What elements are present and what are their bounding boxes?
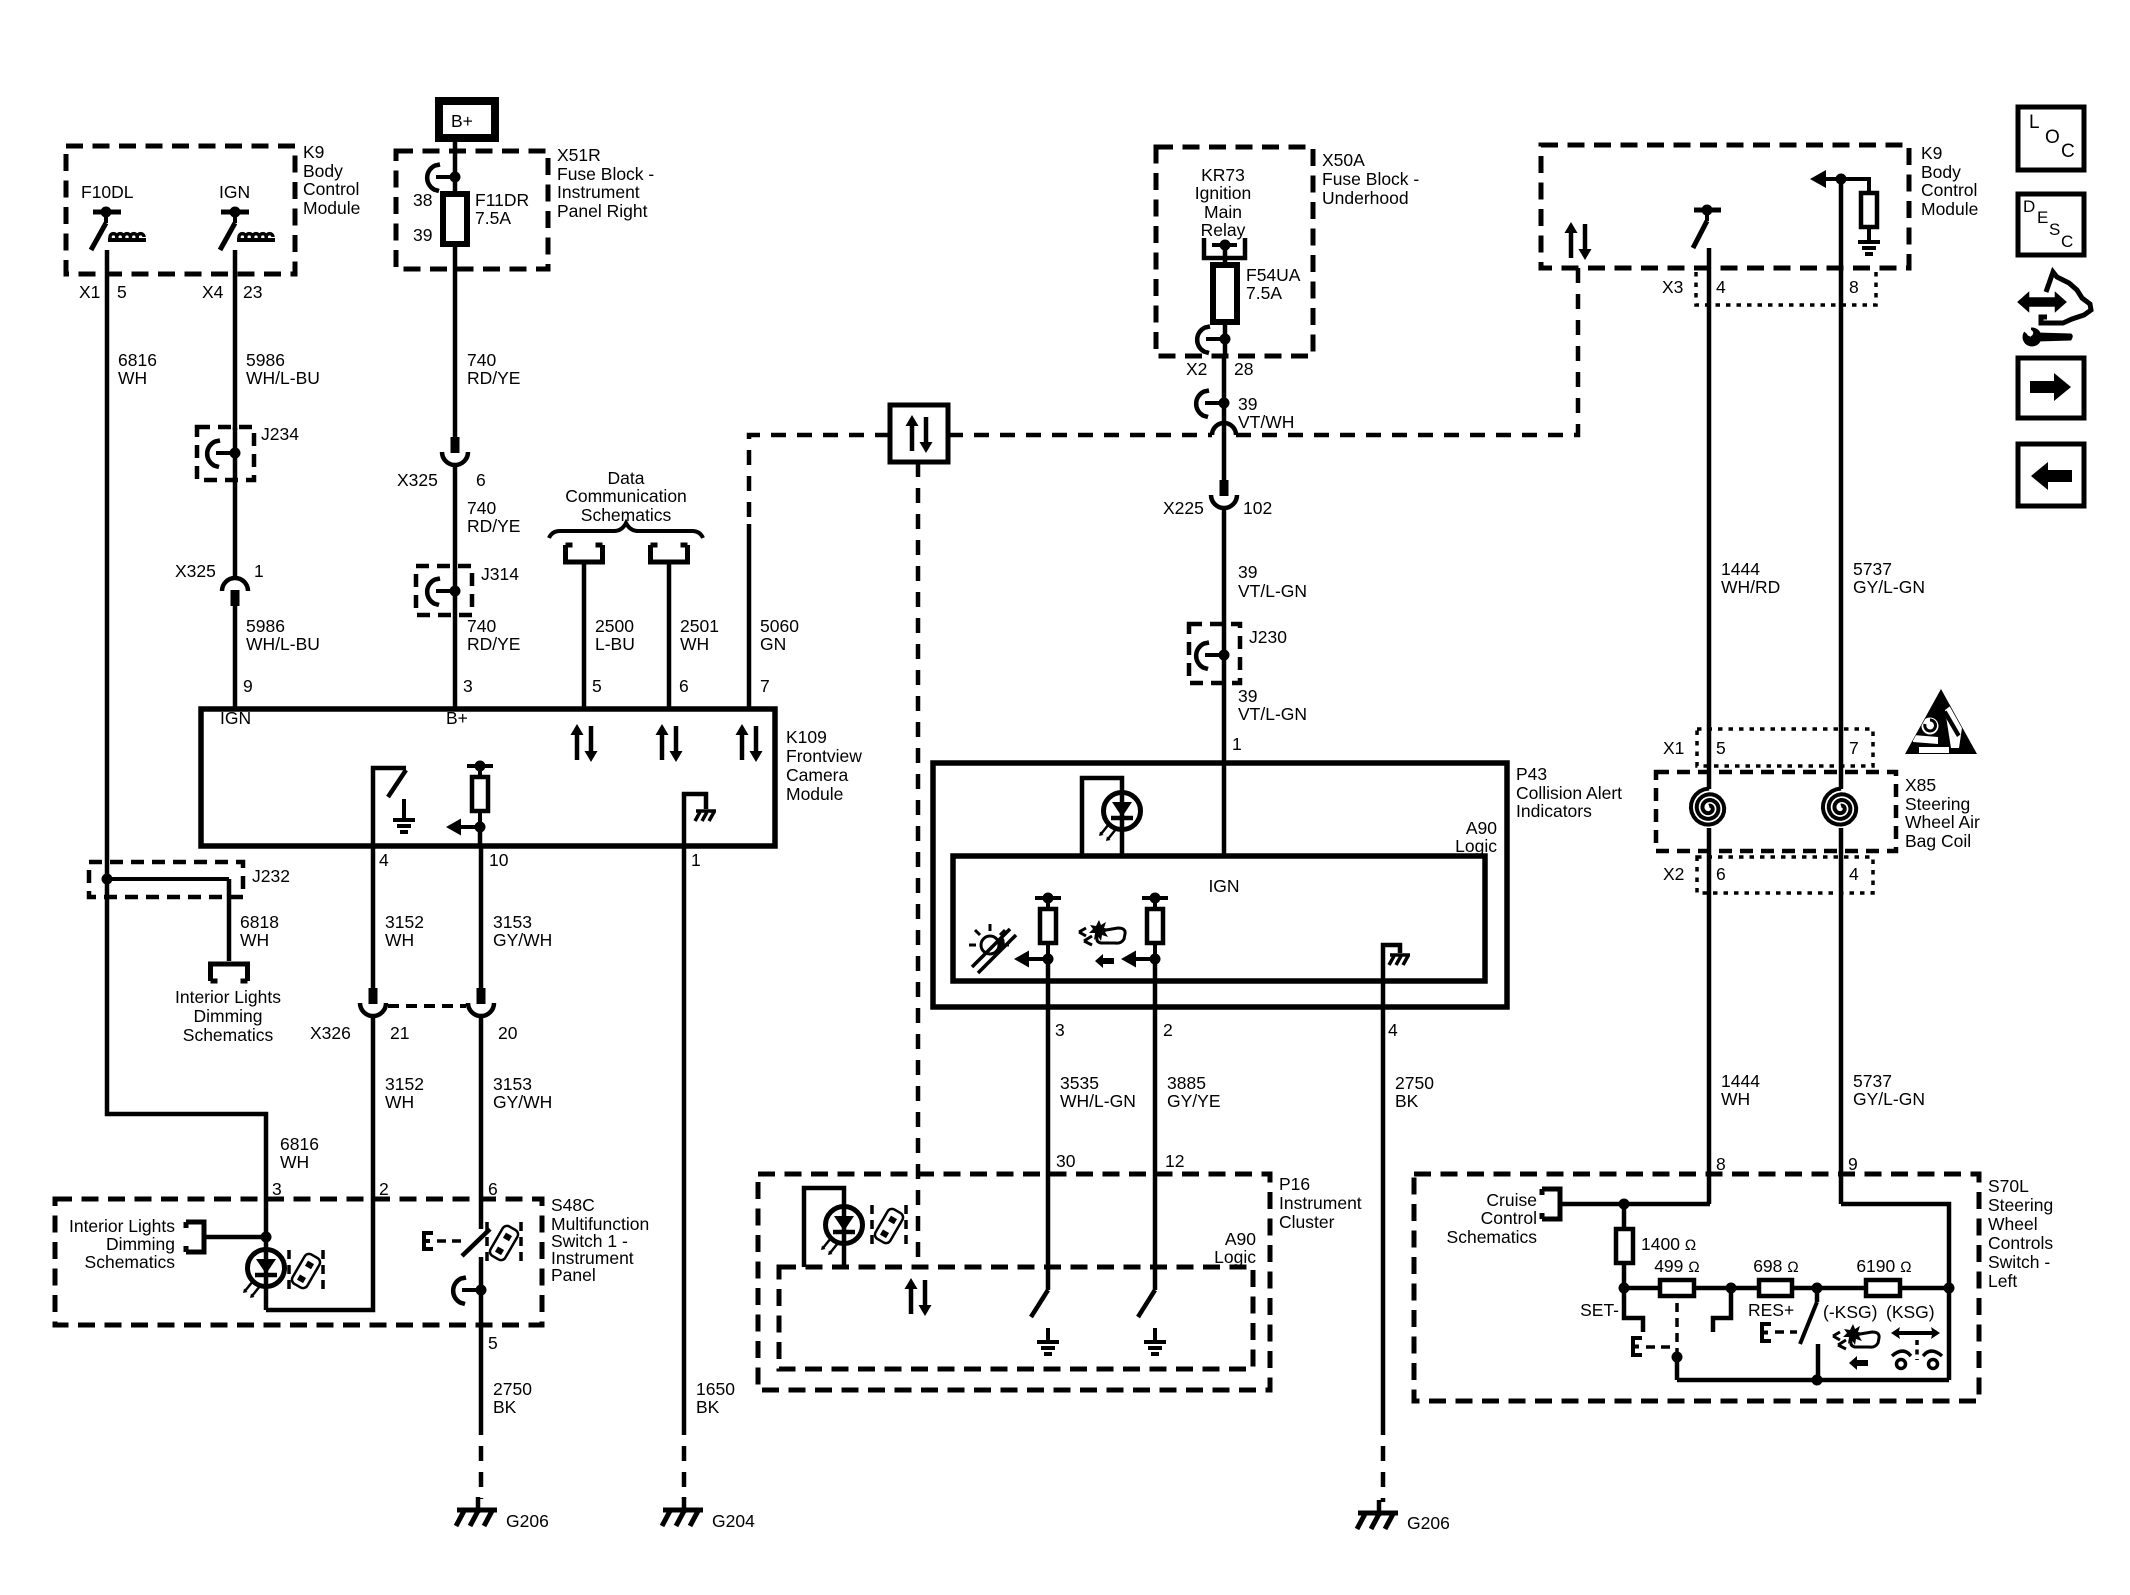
svg-text:Relay: Relay [1201,220,1246,240]
svg-text:Indicators: Indicators [1516,801,1592,821]
svg-text:B+: B+ [451,111,473,131]
svg-text:BK: BK [493,1397,517,1417]
svg-text:C: C [2061,232,2073,251]
svg-text:6818: 6818 [240,912,279,932]
svg-text:3153: 3153 [493,912,532,932]
svg-text:J314: J314 [481,564,519,584]
svg-text:740: 740 [467,616,496,636]
svg-text:6816: 6816 [118,350,157,370]
svg-text:1400 Ω: 1400 Ω [1641,1234,1696,1254]
svg-text:P16: P16 [1279,1174,1310,1194]
svg-text:(-KSG): (-KSG) [1823,1302,1877,1322]
LED return wire to pin 2 [266,1199,373,1310]
svg-text:GY/WH: GY/WH [493,1092,552,1112]
svg-text:X85: X85 [1905,775,1936,795]
svg-text:X325: X325 [175,561,216,581]
battery B+ terminal [439,101,495,151]
off-page bracket serial data B [651,545,719,709]
svg-text:Schematics: Schematics [85,1252,176,1272]
serial data arrows in K109 pin 5 [571,724,598,762]
svg-text:1444: 1444 [1721,559,1760,579]
svg-text:7.5A: 7.5A [475,208,511,228]
svg-text:Underhood: Underhood [1322,188,1409,208]
backlight LED in S48C [243,1199,285,1310]
svg-text:D: D [2023,197,2035,216]
coil spiral right [1823,766,1856,857]
connector X2 row of X85 [1663,857,1873,893]
off-page Cruise Control Schematics [1447,1189,1710,1247]
wire 39 VT/L-GN [1224,510,1307,856]
svg-text:1: 1 [1232,734,1242,754]
svg-text:A90: A90 [1225,1229,1256,1249]
svg-text:C: C [2061,141,2075,162]
steering wheel controls switch S70L [1414,1174,2053,1401]
wire 3152 WH (pin 4) [373,846,424,988]
switch in K9 right (pin 4) [1693,205,1721,269]
svg-text:2: 2 [379,1179,389,1199]
lane keep icon KSG [1891,1327,1942,1369]
sidebar DESC button [2018,194,2084,255]
svg-text:RES+: RES+ [1748,1300,1794,1320]
svg-text:Main: Main [1204,202,1242,222]
svg-text:9: 9 [243,676,253,696]
svg-text:Instrument: Instrument [1279,1193,1362,1213]
wire 39 VT/L-GN to P43 pin 1 [1232,686,1307,754]
body control module K9 (right) [1541,143,1978,268]
svg-text:Wheel: Wheel [1988,1214,2038,1234]
svg-text:GY/L-GN: GY/L-GN [1853,1089,1925,1109]
dashed data wire down to P16 [916,462,921,1267]
Data Communication Schematics reference [549,468,703,538]
svg-text:3152: 3152 [385,912,424,932]
svg-text:S48C: S48C [551,1195,595,1215]
wire 6816 WH from F10DL [107,250,157,897]
svg-text:Control: Control [303,179,359,199]
svg-text:SET-: SET- [1580,1300,1619,1320]
svg-text:5737: 5737 [1853,559,1892,579]
KSG labels [1823,1302,1935,1322]
svg-text:7: 7 [760,676,770,696]
svg-text:X3: X3 [1662,277,1683,297]
svg-text:X50A: X50A [1322,150,1365,170]
body control module K9 (left) [66,142,360,274]
svg-text:740: 740 [467,498,496,518]
svg-text:L: L [2029,112,2040,133]
splice J230 [1189,624,1287,683]
svg-text:6: 6 [1716,864,1726,884]
svg-text:8: 8 [1849,277,1859,297]
svg-text:9: 9 [1848,1154,1858,1174]
fuse block X51R [396,145,654,269]
svg-text:1: 1 [691,850,701,870]
svg-text:6: 6 [679,676,689,696]
svg-text:Bag Coil: Bag Coil [1905,831,1971,851]
svg-text:K9: K9 [1921,143,1942,163]
splice J234 [197,424,299,579]
svg-text:F11DR: F11DR [475,190,529,210]
X326 harness dashed link [388,1004,466,1008]
pin X4 23 [202,282,262,302]
svg-text:X1: X1 [79,282,100,302]
wire 9 entry to bus [1841,1204,1949,1288]
svg-text:Logic: Logic [1214,1247,1256,1267]
svg-text:IGN: IGN [219,182,250,202]
driver F10DL in K9 [81,182,146,250]
svg-text:GY/YE: GY/YE [1167,1091,1221,1111]
svg-text:O: O [2045,127,2060,148]
svg-text:4: 4 [379,850,389,870]
clamp below fuse F54UA [1197,322,1230,356]
wire 1444 WH [1709,857,1760,1204]
svg-text:Schematics: Schematics [1447,1227,1538,1247]
svg-text:21: 21 [390,1023,409,1043]
wire 2750 BK from S48C pin 5 [481,1325,532,1499]
ground G206 right [1357,1500,1450,1533]
svg-text:Controls: Controls [1988,1233,2053,1253]
svg-text:BK: BK [696,1397,720,1417]
collision icon in P43 [1079,920,1125,968]
fuse block X50A [1156,147,1419,356]
collision driver in P43 (pin 2) [1121,893,1168,982]
connector X326 pin 20 [468,988,518,1043]
svg-text:VT/L-GN: VT/L-GN [1238,704,1307,724]
svg-text:Module: Module [303,198,360,218]
wire 3153 GY/WH (pin 10) [481,846,552,988]
connector X1 row of X85 [1663,729,1873,766]
svg-text:WH: WH [1721,1089,1750,1109]
svg-text:2: 2 [1163,1020,1173,1040]
svg-text:J230: J230 [1249,627,1287,647]
svg-text:A90: A90 [1466,818,1497,838]
resistor 1400 ohm [1616,1204,1696,1288]
wire 740 RD/YE to J314 [455,467,520,709]
svg-text:2750: 2750 [1395,1073,1434,1093]
svg-text:S: S [2049,220,2060,239]
svg-text:Interior Lights: Interior Lights [69,1216,175,1236]
svg-text:5737: 5737 [1853,1071,1892,1091]
P43 pin labels 3 2 4 [1055,1020,1398,1040]
P16 pin labels 30 12 [1056,1151,1184,1171]
multifunction switch S48C [55,1195,649,1325]
wire 6818 WH branch [229,879,279,961]
svg-text:6190 Ω: 6190 Ω [1856,1256,1911,1276]
svg-text:6: 6 [476,470,486,490]
svg-text:3152: 3152 [385,1074,424,1094]
lane icon in P16 [872,1205,906,1247]
RES+ switch [1713,1288,1818,1380]
svg-text:X1: X1 [1663,738,1684,758]
svg-text:Fuse Block -: Fuse Block - [1322,169,1419,189]
driver output in K109 (pin 10) [446,761,493,847]
svg-text:X225: X225 [1163,498,1204,518]
svg-text:Control: Control [1921,180,1977,200]
svg-text:39: 39 [413,225,432,245]
svg-text:Fuse Block -: Fuse Block - [557,164,654,184]
connector X3 row [1662,272,1876,305]
svg-text:7.5A: 7.5A [1246,283,1282,303]
serial data arrows in K109 pin 7 [736,724,763,762]
svg-text:2750: 2750 [493,1379,532,1399]
dimming icon in S48C [289,1250,323,1292]
svg-text:4: 4 [1716,277,1726,297]
svg-text:Cruise: Cruise [1486,1190,1537,1210]
svg-text:3153: 3153 [493,1074,532,1094]
svg-text:RD/YE: RD/YE [467,516,520,536]
switch to ground in P16 (pin 30) [1031,1174,1059,1354]
svg-text:4: 4 [1388,1020,1398,1040]
ground G206 left [456,1497,549,1531]
svg-text:WH: WH [240,930,269,950]
svg-text:740: 740 [467,350,496,370]
svg-text:Panel Right: Panel Right [557,201,648,221]
svg-text:WH: WH [280,1152,309,1172]
svg-text:Collision Alert: Collision Alert [1516,783,1622,803]
svg-text:WH: WH [385,1092,414,1112]
bottom rail in S70L [1677,1288,1949,1386]
sidebar next arrow button [2018,358,2084,418]
switch to ground in K109 (pin 4) [373,768,415,846]
resistor 698 ohm [1753,1256,1799,1296]
indicator LED in P16 [804,1188,863,1267]
svg-text:X326: X326 [310,1023,351,1043]
relay KR73 Ignition Main Relay [1195,165,1251,265]
svg-text:X51R: X51R [557,145,601,165]
dashed data wire right to K9 [948,268,1578,435]
A90 logic box in P16 [779,1267,1253,1369]
svg-text:1: 1 [254,561,264,581]
svg-text:5: 5 [592,676,602,696]
svg-text:Panel: Panel [551,1265,596,1285]
svg-text:3: 3 [1055,1020,1065,1040]
svg-text:J234: J234 [261,424,299,444]
svg-text:GY/WH: GY/WH [493,930,552,950]
dim driver in P43 (pin 3) [1014,893,1061,982]
svg-text:Module: Module [786,784,843,804]
svg-text:S70L: S70L [1988,1176,2029,1196]
wire 5986 WH/L-BU to K109 pin 9 [235,606,320,709]
wire 39 VT/WH [1196,356,1294,480]
ground G204 [662,1497,755,1531]
svg-text:30: 30 [1056,1151,1076,1171]
steering wheel air bag coil X85 [1656,772,1980,851]
internal ground in P43 (pin 4) [1383,945,1410,1007]
svg-text:WH: WH [680,634,709,654]
svg-text:3535: 3535 [1060,1073,1099,1093]
svg-text:Body: Body [303,161,343,181]
svg-text:BK: BK [1395,1091,1419,1111]
connector X326 pin 21 [310,988,409,1043]
coil spiral left [1691,766,1724,857]
svg-text:Camera: Camera [786,765,849,785]
wire 1650 BK from K109 pin 1 [684,846,735,1499]
svg-text:RD/YE: RD/YE [467,368,520,388]
svg-text:2501: 2501 [680,616,719,636]
svg-text:G206: G206 [506,1511,549,1531]
svg-text:3: 3 [463,676,473,696]
collision alert indicators P43 [933,763,1622,1007]
svg-text:Interior Lights: Interior Lights [175,987,281,1007]
svg-text:WH/RD: WH/RD [1721,577,1780,597]
svg-text:GY/L-GN: GY/L-GN [1853,577,1925,597]
svg-text:KR73: KR73 [1201,165,1245,185]
svg-text:Switch -: Switch - [1988,1252,2050,1272]
svg-text:Dimming: Dimming [193,1006,262,1026]
svg-text:5: 5 [488,1333,498,1353]
frontview camera module K109 [201,708,862,846]
svg-text:WH/L-GN: WH/L-GN [1060,1091,1136,1111]
svg-text:12: 12 [1165,1151,1184,1171]
wire 740 RD/YE to K109 pin 3 [463,616,520,696]
splice J232 [89,862,290,897]
indicator LED in P43 [1082,778,1141,856]
svg-text:Module: Module [1921,199,1978,219]
svg-text:WH: WH [385,930,414,950]
wire 1444 WH/RD [1709,268,1780,766]
svg-text:L-BU: L-BU [595,634,635,654]
svg-text:F10DL: F10DL [81,182,134,202]
wire 740 RD/YE below fuse [455,244,520,437]
svg-text:5986: 5986 [246,616,285,636]
wire 5737 GY/L-GN [1841,268,1925,766]
wire 5060 GN to K109 pin 7 [749,524,799,709]
K109 pin labels 4 10 1 [379,850,701,870]
svg-text:Cluster: Cluster [1279,1212,1335,1232]
resistor 499 ohm [1654,1256,1700,1296]
svg-text:X4: X4 [202,282,224,302]
svg-text:B+: B+ [446,708,468,728]
svg-text:4: 4 [1849,864,1859,884]
svg-text:RD/YE: RD/YE [467,634,520,654]
svg-text:Left: Left [1988,1271,2017,1291]
svg-text:28: 28 [1234,359,1253,379]
resistor bus in S70L [1619,1283,1955,1294]
svg-text:5060: 5060 [760,616,799,636]
svg-text:GN: GN [760,634,786,654]
svg-text:Steering: Steering [1988,1195,2053,1215]
wire 5986 WH/L-BU from IGN [235,250,320,430]
svg-text:F54UA: F54UA [1246,265,1301,285]
SET- switch [1580,1288,1682,1380]
svg-text:102: 102 [1243,498,1272,518]
svg-text:10: 10 [489,850,509,870]
svg-text:6816: 6816 [280,1134,319,1154]
internal ground in K109 (pin 1) [684,794,716,846]
wire 3535 WH/L-GN [1048,981,1136,1174]
svg-text:Dimming: Dimming [106,1234,175,1254]
collision alert icon KSG [1833,1324,1879,1370]
svg-text:39: 39 [1238,686,1257,706]
svg-text:39: 39 [1238,394,1257,414]
svg-text:VT/WH: VT/WH [1238,412,1294,432]
serial data gateway box [890,405,948,462]
svg-text:3885: 3885 [1167,1073,1206,1093]
svg-text:5986: 5986 [246,350,285,370]
svg-text:39: 39 [1238,562,1257,582]
switch to ground in P16 (pin 12) [1138,1174,1166,1354]
svg-text:E: E [2037,208,2048,227]
svg-text:WH/L-BU: WH/L-BU [246,368,320,388]
svg-text:X2: X2 [1186,359,1207,379]
serial data arrows in K9 right [1565,222,1592,260]
svg-text:20: 20 [498,1023,518,1043]
svg-text:J232: J232 [252,866,290,886]
connector X325 pin 6 [397,437,486,490]
airbag warning triangle [1905,689,1977,754]
svg-text:WH/L-BU: WH/L-BU [246,634,320,654]
svg-text:3: 3 [272,1179,282,1199]
lane keep switch in S48C (pin 6) [424,1199,490,1325]
svg-text:(KSG): (KSG) [1886,1302,1935,1322]
svg-text:7: 7 [1849,738,1859,758]
sidebar LOC button [2018,107,2084,170]
svg-text:Ignition: Ignition [1195,183,1251,203]
A90 logic box in P43 [953,856,1485,981]
sense resistor to ground in K9 right (pin 8) [1810,170,1880,268]
svg-text:K109: K109 [786,727,827,747]
svg-text:K9: K9 [303,142,324,162]
svg-text:38: 38 [413,190,432,210]
lane keep icon in S48C [487,1222,521,1264]
svg-text:Instrument: Instrument [557,182,640,202]
driver IGN in K9 [219,182,275,250]
serial data arrows in P16 [905,1278,932,1316]
svg-text:G204: G204 [712,1511,755,1531]
connector X225 pin 102 [1163,480,1272,518]
svg-text:8: 8 [1716,1154,1726,1174]
svg-text:2500: 2500 [595,616,634,636]
wire 3885 GY/YE [1155,981,1221,1174]
wire 3153 GY/WH to S48C pin 6 [481,1018,552,1199]
fuse F54UA 7.5A [1213,265,1301,322]
svg-text:Frontview: Frontview [786,746,862,766]
sidebar pointer-wrench icon [2019,272,2091,347]
clamp in X51R [427,151,460,194]
dim icon in P43 [969,924,1016,973]
svg-text:Wheel Air: Wheel Air [1905,812,1980,832]
svg-text:499 Ω: 499 Ω [1654,1256,1700,1276]
svg-text:Logic: Logic [1455,836,1497,856]
svg-text:Control: Control [1481,1208,1537,1228]
instrument cluster P16 [758,1174,1362,1390]
pin X2 28 [1186,359,1253,379]
svg-text:698 Ω: 698 Ω [1753,1256,1799,1276]
svg-text:X2: X2 [1663,864,1684,884]
svg-text:5: 5 [1716,738,1726,758]
svg-text:Steering: Steering [1905,794,1970,814]
svg-text:Data: Data [608,468,645,488]
svg-text:1444: 1444 [1721,1071,1760,1091]
resistor 6190 ohm [1856,1256,1911,1296]
svg-text:6: 6 [488,1179,498,1199]
svg-text:P43: P43 [1516,764,1547,784]
splice J314 [416,564,519,615]
svg-text:IGN: IGN [1208,876,1239,896]
wire 6816 WH continues to S48C pin 3 [107,897,319,1199]
off-page Interior Lights Dimming in S48C [69,1216,272,1272]
wire 5737 GY/L-GN lower [1841,857,1925,1204]
sidebar back arrow button [2018,444,2084,506]
svg-text:Schematics: Schematics [183,1025,274,1045]
wire 3152 WH to S48C pin 2 [373,1018,424,1199]
dashed data wire left to 5060 GN [749,435,890,524]
fuse F11DR 7.5A [413,190,529,245]
wire 2750 BK right [1383,1007,1434,1502]
svg-text:23: 23 [243,282,262,302]
svg-text:1650: 1650 [696,1379,735,1399]
svg-text:G206: G206 [1407,1513,1450,1533]
svg-text:Communication: Communication [565,486,687,506]
off-page bracket serial data A [566,545,635,709]
